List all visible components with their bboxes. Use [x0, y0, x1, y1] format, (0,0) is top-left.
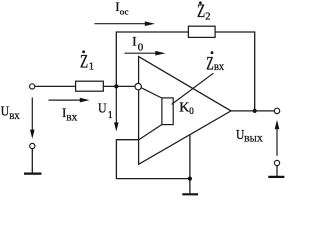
- label Ivx: [62, 105, 78, 122]
- wire Z2 to right corner down to output node: [215, 32, 255, 111]
- wire lower-right terminal stem: [276, 166, 278, 176]
- label Z1 with dot: [80, 50, 94, 72]
- arrow voltage Uvx: [30, 98, 35, 139]
- label pointer line from Zvx to box: [172, 73, 214, 104]
- svg-text:I: I: [132, 33, 136, 48]
- svg-text:K: K: [179, 100, 189, 115]
- svg-text:ВЫХ: ВЫХ: [244, 135, 263, 144]
- node input circle of op-amp: [135, 83, 141, 89]
- svg-text:Z: Z: [197, 2, 205, 22]
- svg-text:0: 0: [138, 42, 144, 54]
- input terminal upper circle: [30, 84, 35, 89]
- resistor Z2: [188, 26, 215, 37]
- svg-text:ВХ: ВХ: [214, 63, 224, 72]
- wire Z1 to amplifier input: [103, 85, 135, 87]
- arrow current Ioc: [95, 21, 156, 26]
- node C ground junction dot: [188, 177, 192, 181]
- ground center: [182, 193, 198, 195]
- arrow current I0: [125, 51, 166, 56]
- svg-text:ВХ: ВХ: [66, 113, 77, 122]
- svg-text:Z: Z: [80, 53, 88, 73]
- wire lower input to ground run: [116, 140, 189, 179]
- svg-text:ВХ: ВХ: [9, 112, 20, 121]
- label Ioc: [115, 0, 128, 17]
- input terminal lower circle: [30, 143, 35, 148]
- svg-text:1: 1: [89, 62, 94, 73]
- wire inner top diagonal: [141, 88, 162, 98]
- node B output junction dot: [253, 109, 257, 113]
- svg-text:U: U: [98, 102, 107, 117]
- label Z2 with dot: [197, 1, 211, 22]
- wire lower-left terminal stem: [31, 149, 33, 173]
- label Uvyx: [236, 128, 263, 144]
- arrow voltage U1: [114, 89, 119, 132]
- impedance Zvx box inside op-amp: [162, 98, 173, 125]
- wire amplifier common to ground: [189, 135, 191, 194]
- label Zvx with dot: [206, 51, 224, 74]
- svg-text:ос: ос: [120, 8, 129, 17]
- label Uvx: [1, 105, 20, 122]
- ground right: [268, 176, 284, 178]
- arrow voltage Uvyx: [275, 120, 280, 156]
- arrow current Ivx: [49, 98, 90, 103]
- svg-text:1: 1: [108, 110, 113, 121]
- label U1: [98, 102, 113, 121]
- ground left: [24, 173, 42, 175]
- output terminal lower circle: [274, 160, 279, 165]
- label K0: [179, 100, 194, 116]
- wire amplifier output to terminal: [231, 110, 274, 112]
- svg-text:U: U: [236, 128, 244, 143]
- op-amp U1 triangle: [139, 57, 231, 165]
- svg-text:0: 0: [189, 106, 194, 116]
- svg-text:U: U: [1, 105, 9, 120]
- wire feedback node up and top run to Z2: [116, 32, 188, 86]
- node A junction dot at Z1/feedback: [114, 84, 118, 88]
- svg-text:2: 2: [205, 11, 210, 22]
- wire input terminal to Z1: [35, 85, 76, 87]
- wire inner bottom diagonal: [139, 125, 162, 140]
- output terminal upper circle: [274, 108, 279, 113]
- svg-text:Z: Z: [206, 53, 214, 74]
- resistor Z1: [76, 81, 104, 91]
- label I0: [132, 33, 144, 53]
